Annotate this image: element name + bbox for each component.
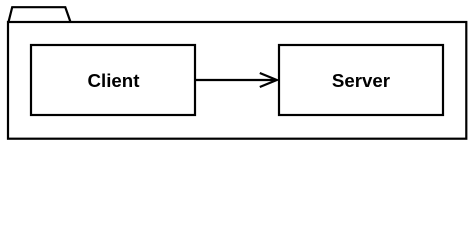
node Server box: [279, 45, 443, 115]
svg-text:Server: Server: [332, 70, 390, 91]
wire arrow shaft Client to Server: [196, 79, 276, 81]
node Client box: [31, 45, 195, 115]
arrowhead: [260, 73, 277, 87]
svg-text:Client: Client: [88, 70, 140, 91]
package body: [8, 22, 466, 139]
package tab: [9, 7, 71, 22]
